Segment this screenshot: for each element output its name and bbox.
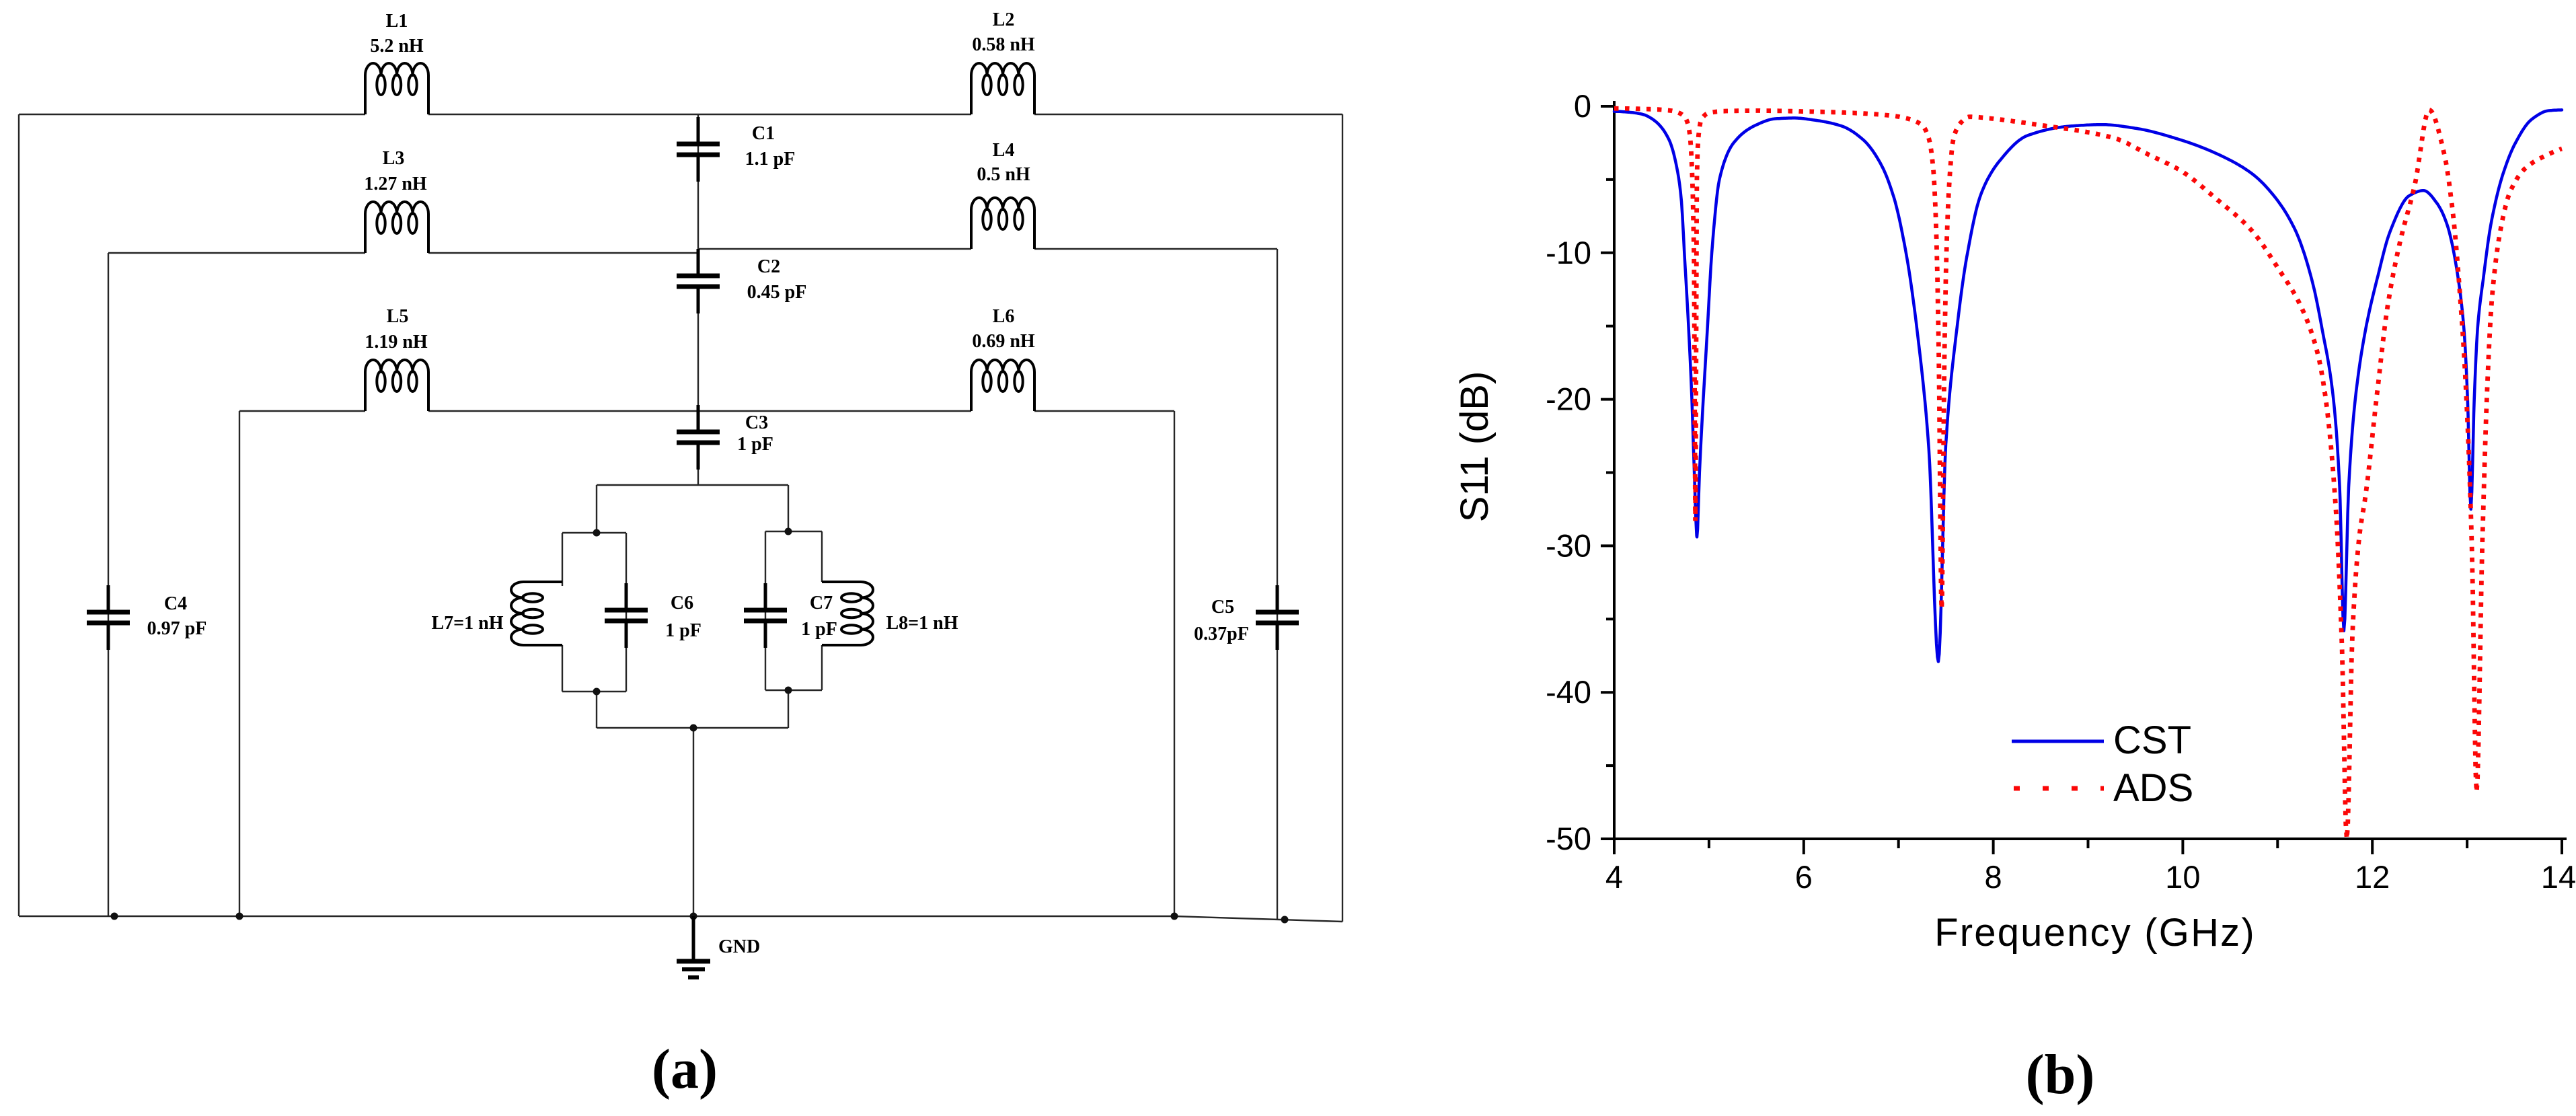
svg-text:L4: L4 xyxy=(993,140,1015,161)
svg-text:0.69 nH: 0.69 nH xyxy=(972,331,1035,352)
svg-text:-10: -10 xyxy=(1546,235,1591,270)
node left cell top xyxy=(593,529,601,537)
wire right outer vertical xyxy=(1342,114,1343,922)
svg-text:L7=1 nH: L7=1 nH xyxy=(432,613,504,634)
node row2-right / ground bus xyxy=(1281,916,1289,924)
wire row1 L1 to center node xyxy=(428,114,698,115)
inductor L7 (1 nH, vertical) xyxy=(511,582,562,645)
x tick 14 GHz xyxy=(2561,839,2563,854)
wire right branch upper xyxy=(788,485,789,531)
svg-text:(a): (a) xyxy=(652,1038,718,1101)
capacitor C7 (1 pF) xyxy=(744,583,787,648)
y tick -25 dB xyxy=(1606,472,1614,474)
svg-text:L3: L3 xyxy=(383,148,405,169)
svg-text:1.1 pF: 1.1 pF xyxy=(745,149,796,170)
svg-text:ADS: ADS xyxy=(2113,766,2193,810)
x tick 6 GHz xyxy=(1803,839,1805,854)
svg-text:12: 12 xyxy=(2355,859,2390,895)
svg-text:L6: L6 xyxy=(993,306,1015,327)
svg-text:C1: C1 xyxy=(752,123,775,144)
svg-text:CST: CST xyxy=(2113,718,2191,762)
svg-text:C3: C3 xyxy=(745,412,768,433)
x tick 8 GHz xyxy=(1992,839,1995,854)
wire row2 left vertical xyxy=(108,253,109,916)
wire resonator to ground bus xyxy=(693,728,694,916)
y tick -0 dB xyxy=(1601,105,1614,108)
capacitor C4 (0.97 pF) xyxy=(87,585,130,650)
x tick 13 GHz xyxy=(2466,839,2468,848)
svg-text:-30: -30 xyxy=(1546,527,1591,563)
legend CST line sample xyxy=(2012,740,2104,743)
wire row2 L4 to right vertical xyxy=(1034,248,1277,250)
wire row2 left lead xyxy=(108,252,365,254)
capacitor C6 (1 pF) xyxy=(605,583,648,648)
capacitor C3 (1 pF) xyxy=(677,405,720,470)
svg-text:14: 14 xyxy=(2541,859,2576,895)
y tick -45 dB xyxy=(1606,764,1614,767)
wire center column C2-C3 xyxy=(697,287,699,430)
svg-text:-20: -20 xyxy=(1546,381,1591,417)
capacitor C5 (0.37 pF) xyxy=(1256,585,1299,650)
node row2-left / ground bus xyxy=(111,913,118,920)
wire resonator bottom bar xyxy=(597,727,788,729)
wire ground bus right xyxy=(1174,916,1342,922)
wire row3 L5 to center node xyxy=(428,410,698,412)
x axis spine xyxy=(1613,838,2567,840)
node row3-left / ground bus xyxy=(236,913,243,920)
inductor L1 (5.2 nH) xyxy=(365,63,428,114)
capacitor C2 (0.45 pF) xyxy=(677,249,720,313)
wire row1 left (input bus to L1) xyxy=(19,114,365,115)
svg-text:-50: -50 xyxy=(1546,821,1591,856)
svg-text:6: 6 xyxy=(1795,859,1813,895)
wire right cell C7 leg xyxy=(765,531,766,690)
y tick -30 dB xyxy=(1601,544,1614,547)
wire center column C3 to splitter xyxy=(697,443,699,485)
svg-text:L2: L2 xyxy=(993,9,1015,30)
wire left cell bottom bar xyxy=(562,691,626,692)
svg-text:0.97 pF: 0.97 pF xyxy=(147,618,207,639)
inductor L8 (1 nH, vertical) xyxy=(822,582,873,645)
svg-text:(b): (b) xyxy=(2026,1043,2095,1106)
wire left cell L7 leg upper xyxy=(562,533,563,586)
wire left cell top bar xyxy=(562,532,626,533)
y tick -5 dB xyxy=(1606,178,1614,181)
y tick -50 dB xyxy=(1601,838,1614,840)
x tick 9 GHz xyxy=(2087,839,2090,848)
svg-text:C6: C6 xyxy=(671,593,693,613)
svg-text:5.2 nH: 5.2 nH xyxy=(370,36,424,57)
y tick -35 dB xyxy=(1606,618,1614,620)
svg-text:8: 8 xyxy=(1985,859,2002,895)
svg-text:1 pF: 1 pF xyxy=(665,620,702,641)
svg-text:-40: -40 xyxy=(1546,674,1591,710)
wire left outer vertical xyxy=(18,114,20,916)
wire row2 right vertical xyxy=(1277,249,1278,920)
svg-text:C4: C4 xyxy=(164,593,187,614)
inductor L3 (1.27 nH) xyxy=(365,202,428,253)
svg-text:C7: C7 xyxy=(810,593,833,613)
x tick 11 GHz xyxy=(2276,839,2279,848)
svg-text:0: 0 xyxy=(1574,88,1591,124)
svg-text:0.45 pF: 0.45 pF xyxy=(747,282,807,303)
y tick -40 dB xyxy=(1601,691,1614,694)
inductor L5 (1.19 nH) xyxy=(365,360,428,411)
capacitor C1 (1.1 pF) xyxy=(677,117,720,182)
svg-text:4: 4 xyxy=(1605,859,1623,895)
y tick -20 dB xyxy=(1601,398,1614,401)
inductor L6 (0.69 nH) xyxy=(971,360,1034,411)
wire right cell bottom bar xyxy=(765,690,822,691)
wire row3 right vertical xyxy=(1174,411,1175,916)
inductor L2 (0.58 nH) xyxy=(971,63,1034,114)
wire left cell L7 leg lower xyxy=(562,645,563,692)
y tick -10 dB xyxy=(1601,252,1614,254)
y tick -15 dB xyxy=(1606,325,1614,328)
wire row3 left lead xyxy=(239,410,365,412)
x tick 5 GHz xyxy=(1708,839,1710,848)
wire right cell top bar xyxy=(765,531,822,532)
svg-text:0.58 nH: 0.58 nH xyxy=(972,34,1035,55)
wire row2 L3 to center node xyxy=(428,249,698,253)
wire row3 left vertical xyxy=(239,411,240,916)
node ground bus / GND stem xyxy=(690,913,697,920)
node row3-right / ground bus xyxy=(1171,913,1178,920)
svg-text:S11 (dB): S11 (dB) xyxy=(1453,371,1497,523)
svg-text:0.37pF: 0.37pF xyxy=(1194,624,1249,644)
svg-text:GND: GND xyxy=(718,936,760,957)
wire ground bus left xyxy=(19,916,1174,917)
svg-text:0.5 nH: 0.5 nH xyxy=(977,164,1030,185)
wire right cell L8 leg upper xyxy=(821,531,823,582)
wire left cell C6 leg xyxy=(626,533,627,692)
svg-text:1.19 nH: 1.19 nH xyxy=(365,332,428,352)
x tick 10 GHz xyxy=(2181,839,2184,854)
svg-text:C2: C2 xyxy=(757,256,780,277)
wire right branch lower xyxy=(788,690,789,728)
wire left branch upper xyxy=(596,485,597,533)
node right cell top xyxy=(785,528,792,535)
legend ADS dotted sample xyxy=(2014,786,2104,791)
svg-text:10: 10 xyxy=(2165,859,2200,895)
node right cell bottom xyxy=(785,687,792,694)
x tick 12 GHz xyxy=(2371,839,2374,854)
inductor L4 (0.5 nH) xyxy=(971,198,1034,249)
svg-text:C5: C5 xyxy=(1211,597,1234,618)
curve ADS (red dotted) xyxy=(1614,108,2562,839)
svg-text:L8=1 nH: L8=1 nH xyxy=(886,613,958,634)
wire row2 center to L4 xyxy=(698,248,971,250)
svg-text:1.27 nH: 1.27 nH xyxy=(364,174,427,194)
wire center column C1-C2 xyxy=(697,114,699,274)
y axis spine xyxy=(1613,101,1616,839)
node resonator bottom center xyxy=(690,724,697,732)
wire row1 L2 to right edge xyxy=(1034,114,1342,115)
ground GND xyxy=(677,916,710,977)
wire left branch lower xyxy=(596,692,597,728)
wire right cell L8 leg lower xyxy=(821,645,823,690)
node left cell bottom xyxy=(593,688,601,696)
wire row3 center to L6 xyxy=(698,410,971,412)
svg-text:Frequency (GHz): Frequency (GHz) xyxy=(1934,911,2256,955)
x tick 4 GHz xyxy=(1613,839,1616,854)
curve CST (blue solid) xyxy=(1614,110,2562,661)
svg-text:1 pF: 1 pF xyxy=(737,434,773,455)
svg-text:L5: L5 xyxy=(387,306,409,327)
x tick 7 GHz xyxy=(1897,839,1900,848)
svg-text:L1: L1 xyxy=(386,11,408,32)
wire row1 center to L2 xyxy=(698,114,971,115)
wire splitter top bar xyxy=(597,484,788,486)
wire row3 L6 to right vertical xyxy=(1034,410,1174,412)
svg-text:1 pF: 1 pF xyxy=(801,619,837,640)
